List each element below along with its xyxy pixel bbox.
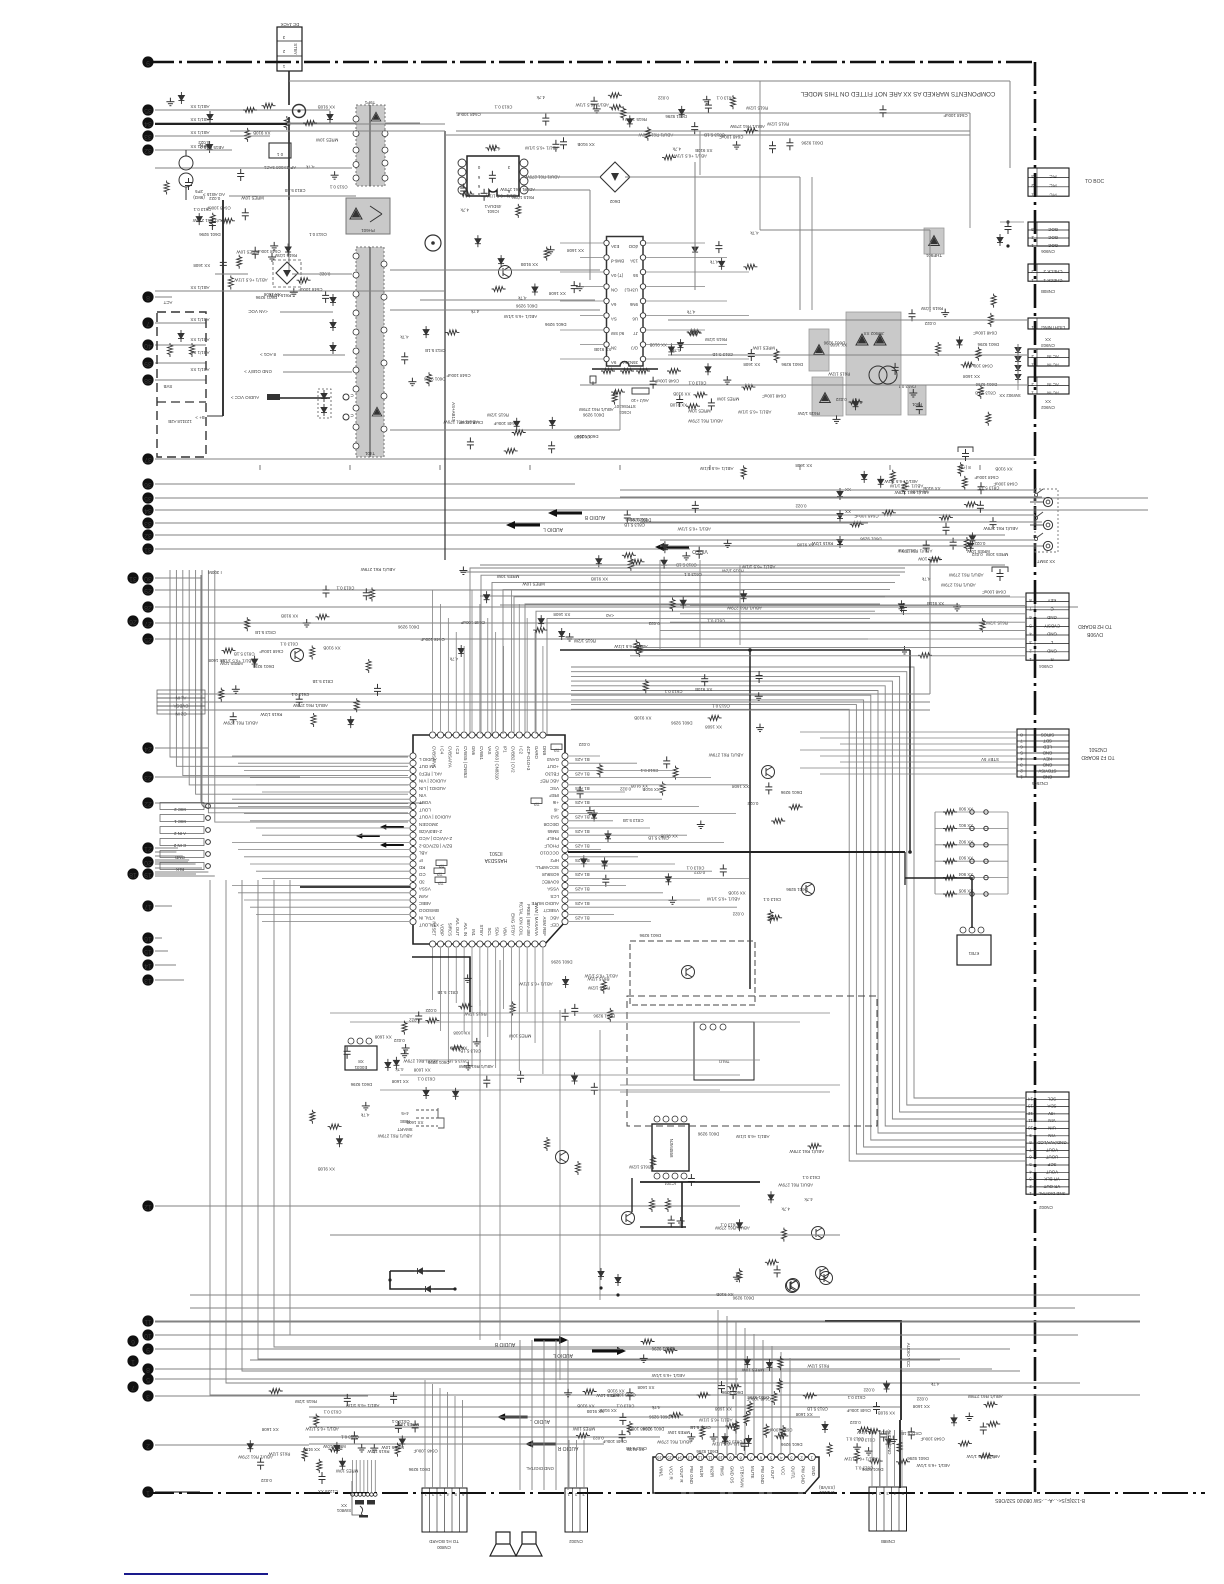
connector CN88B bbox=[869, 1487, 907, 1531]
svg-text:TP: TP bbox=[439, 863, 445, 868]
connector CN904 to H2 board bbox=[1026, 593, 1069, 660]
svg-text:B1 A2S: B1 A2S bbox=[575, 815, 590, 820]
svg-text:XX: XX bbox=[845, 487, 851, 492]
bottom border frame bbox=[148, 1492, 1205, 1494]
connector CN906 bbox=[1028, 222, 1069, 246]
connector CN902 bbox=[1028, 377, 1069, 394]
transistor Q201 bbox=[786, 1280, 799, 1293]
svg-text:39: 39 bbox=[144, 360, 152, 367]
svg-text:4.7k: 4.7k bbox=[460, 208, 469, 213]
svg-text:AP-2X008 9AC1: AP-2X008 9AC1 bbox=[263, 165, 296, 170]
svg-text:0 1: 0 1 bbox=[276, 152, 283, 157]
svg-text:12: 12 bbox=[144, 1203, 152, 1210]
svg-text:AS+AB1S: AS+AB1S bbox=[451, 402, 456, 422]
svg-text:CVBSA/YA: CVBSA/YA bbox=[447, 746, 452, 768]
svg-text:C613 0.1: C613 0.1 bbox=[308, 232, 326, 237]
svg-text:R615 1/2W: R615 1/2W bbox=[260, 712, 283, 717]
svg-text:C IN 2: C IN 2 bbox=[173, 843, 186, 848]
svg-text:XTAL IN: XTAL IN bbox=[419, 915, 435, 920]
svg-text:GND OS: GND OS bbox=[730, 1466, 735, 1483]
svg-text:CVBB2 | CV2: CVBB2 | CV2 bbox=[510, 746, 515, 773]
node 20 bbox=[142, 856, 153, 867]
svg-text:C648 100uF: C648 100uF bbox=[973, 331, 997, 336]
svg-text:VR BLK: VR BLK bbox=[1044, 1177, 1060, 1182]
svg-text:XX 905: XX 905 bbox=[958, 889, 973, 894]
svg-text:C813 5.1B: C813 5.1B bbox=[312, 679, 333, 684]
svg-text:6OV8EC: 6OV8EC bbox=[542, 879, 559, 884]
svg-text:AVL IN: AVL IN bbox=[463, 923, 468, 936]
svg-text:XX 910B: XX 910B bbox=[878, 1411, 895, 1416]
svg-text:D601 9296: D601 9296 bbox=[651, 1347, 673, 1352]
connector pin row 1 bbox=[160, 803, 204, 810]
svg-text:R615 1/2W: R615 1/2W bbox=[294, 1399, 317, 1404]
svg-text:14: 14 bbox=[1028, 1096, 1033, 1101]
wire from node 33 bbox=[155, 522, 868, 524]
svg-text:I C3: I C3 bbox=[455, 746, 460, 755]
svg-text:MRE5 10W: MRE5 10W bbox=[381, 1445, 404, 1450]
svg-text:XX 910B: XX 910B bbox=[716, 1292, 733, 1297]
vertical wires top mid bbox=[699, 131, 701, 175]
svg-text:XX 910B: XX 910B bbox=[695, 148, 712, 153]
node 26 bbox=[127, 615, 138, 626]
svg-text:DV90B: DV90B bbox=[1086, 631, 1103, 637]
svg-text:0.022: 0.022 bbox=[849, 1420, 861, 1425]
svg-text:B1 A2S: B1 A2S bbox=[575, 757, 590, 762]
svg-text:C: C bbox=[1050, 606, 1053, 611]
cluster below IC bbox=[510, 1002, 515, 1016]
svg-text:R615 1/2W: R615 1/2W bbox=[745, 105, 768, 110]
cluster top middle caps bbox=[627, 115, 633, 127]
svg-text:33: 33 bbox=[144, 133, 152, 140]
svg-text:C648 100uF: C648 100uF bbox=[256, 249, 280, 254]
svg-text:CN002: CN002 bbox=[1039, 1205, 1053, 1210]
connector CN302 woofer bbox=[565, 1488, 588, 1532]
svg-text:D601 9296: D601 9296 bbox=[423, 376, 445, 381]
svg-text:6: 6 bbox=[131, 1338, 135, 1345]
svg-text:SM65: SM65 bbox=[547, 829, 559, 834]
svg-text:STBY 5V: STBY 5V bbox=[981, 757, 999, 762]
node 8 bbox=[142, 1363, 153, 1374]
svg-text:C613 0.1: C613 0.1 bbox=[716, 95, 734, 100]
connector pin row 4 bbox=[160, 839, 204, 846]
node 6 bbox=[127, 1335, 138, 1346]
svg-text:BOC: BOC bbox=[1048, 235, 1058, 240]
node 38 bbox=[142, 374, 153, 385]
svg-text:3: 3 bbox=[146, 1393, 150, 1400]
svg-text:+I6: +I6 bbox=[552, 800, 559, 805]
svg-text:Z-4B3/V/ZB: Z-4B3/V/ZB bbox=[419, 829, 442, 834]
svg-text:10: 10 bbox=[717, 1456, 722, 1461]
wire from node 5 bbox=[155, 1378, 738, 1380]
QFP top pin verticals bbox=[432, 590, 434, 731]
top rail second bbox=[230, 130, 445, 132]
svg-text:D601 9296: D601 9296 bbox=[823, 341, 845, 346]
connector CN903 bbox=[1028, 318, 1069, 329]
svg-text:XX 1608: XX 1608 bbox=[795, 463, 812, 468]
svg-text:ABU/1 R61 279W: ABU/1 R61 279W bbox=[948, 572, 984, 577]
svg-text:D601 9296: D601 9296 bbox=[697, 1132, 719, 1137]
svg-text:C613 0.1: C613 0.1 bbox=[763, 897, 781, 902]
connector CN80B bbox=[1028, 264, 1069, 281]
svg-text:ABU/1 R61 279W: ABU/1 R61 279W bbox=[729, 124, 765, 129]
svg-text:23: 23 bbox=[144, 774, 152, 781]
connector CN901 bbox=[1028, 349, 1069, 366]
svg-text:35N35A: 35N35A bbox=[622, 360, 638, 365]
top rails detail bbox=[232, 130, 445, 132]
svg-text:ACT: ACT bbox=[163, 300, 172, 305]
wire from node 13 bbox=[155, 979, 184, 981]
svg-text:XX 1608: XX 1608 bbox=[391, 1079, 408, 1084]
svg-text:VOUT: VOUT bbox=[419, 800, 432, 805]
svg-text:D601 9296: D601 9296 bbox=[801, 141, 823, 146]
TP test point boxes bbox=[436, 860, 447, 866]
svg-text:CN80B: CN80B bbox=[1041, 289, 1055, 294]
wire from node 30 bbox=[155, 577, 201, 579]
transistor Q601 bbox=[556, 1151, 569, 1164]
svg-text:AB1/1 +6.5 1/1W: AB1/1 +6.5 1/1W bbox=[884, 479, 918, 484]
svg-text:SA3: SA3 bbox=[550, 815, 559, 820]
node 35 bbox=[142, 492, 153, 503]
svg-text:IC601: IC601 bbox=[487, 209, 499, 214]
svg-text:J7: J7 bbox=[633, 331, 638, 336]
svg-text:C1225 XX: C1225 XX bbox=[318, 1489, 338, 1494]
svg-text:B1 A2S: B1 A2S bbox=[575, 872, 590, 877]
svg-text:EMG STBY: EMG STBY bbox=[510, 913, 515, 936]
svg-text:D601 9296: D601 9296 bbox=[732, 1296, 754, 1301]
svg-text:XX 910B: XX 910B bbox=[695, 687, 712, 692]
svg-text:AC IN: AC IN bbox=[1047, 363, 1059, 368]
node 11 bbox=[142, 1315, 153, 1326]
svg-text:SMART: SMART bbox=[397, 1127, 413, 1132]
svg-text:GND: GND bbox=[1047, 615, 1057, 620]
svg-text:OUT/L: OUT/L bbox=[790, 1466, 795, 1479]
svg-text:AUDIO L: AUDIO L bbox=[418, 757, 436, 762]
svg-text:XX 910B: XX 910B bbox=[303, 1447, 320, 1452]
IC U2 DIP8 top (IC601) bbox=[467, 156, 519, 196]
svg-text:31: 31 bbox=[144, 546, 152, 553]
svg-text:AB1/1 XX: AB1/1 XX bbox=[190, 104, 209, 109]
svg-text:14: 14 bbox=[677, 1456, 682, 1461]
cluster under-IC rows bbox=[402, 1021, 407, 1035]
svg-text:ABU/1 R61 279W: ABU/1 R61 279W bbox=[443, 419, 479, 424]
svg-text:C813 5.1B: C813 5.1B bbox=[285, 188, 306, 193]
svg-text:C813 5.1B: C813 5.1B bbox=[704, 133, 725, 138]
second lamp circle bbox=[425, 235, 441, 251]
rails y596 y605 bbox=[480, 595, 1010, 597]
option jumper row 6 bbox=[935, 893, 1008, 895]
svg-text:4.7k: 4.7k bbox=[305, 164, 314, 169]
bold wire HP2 rail bbox=[568, 851, 905, 853]
node 39 bbox=[142, 357, 153, 368]
svg-text:AB1/1 XX: AB1/1 XX bbox=[190, 130, 209, 135]
svg-text:VSBC/7: VSBC/7 bbox=[543, 908, 559, 913]
svg-text:AB1/1 XX: AB1/1 XX bbox=[190, 144, 209, 149]
svg-text:16: 16 bbox=[657, 1456, 662, 1461]
svg-text:XX 1608: XX 1608 bbox=[743, 362, 760, 367]
svg-text:AC IN: AC IN bbox=[1047, 354, 1059, 359]
bus nest above IC bbox=[470, 568, 905, 734]
cluster amp right bbox=[980, 1423, 987, 1435]
node 12 bbox=[142, 1200, 153, 1211]
svg-text:AB1/1 +6.5 1/1W: AB1/1 +6.5 1/1W bbox=[735, 1134, 769, 1139]
svg-text:BM6-d: BM6-d bbox=[610, 259, 623, 264]
svg-text:D601 9296: D601 9296 bbox=[671, 721, 693, 726]
node 13 bbox=[142, 974, 153, 985]
svg-text:MRE5 10W: MRE5 10W bbox=[716, 397, 739, 402]
svg-text:35: 35 bbox=[144, 495, 152, 502]
left vertical bundle to bottom bbox=[155, 847, 170, 849]
svg-text:XX 904: XX 904 bbox=[958, 872, 973, 877]
svg-text:IN2/R: IN2/R bbox=[709, 1466, 714, 1477]
svg-text:PIC: PIC bbox=[1049, 174, 1056, 179]
svg-text:123118 A2B: 123118 A2B bbox=[168, 419, 192, 424]
svg-text:D601 9296: D601 9296 bbox=[781, 362, 803, 367]
svg-text:D601 9296: D601 9296 bbox=[907, 1456, 929, 1461]
cap bracket symbols bbox=[958, 447, 973, 452]
svg-text:26: 26 bbox=[129, 618, 137, 625]
svg-text:R615 1/2W: R615 1/2W bbox=[797, 411, 820, 416]
svg-text:19: 19 bbox=[144, 871, 152, 878]
svg-text:0.022: 0.022 bbox=[924, 321, 936, 326]
svg-text:RCTAL ION COIL: RCTAL ION COIL bbox=[518, 902, 523, 937]
svg-text:TP: TP bbox=[534, 801, 540, 806]
svg-text:B1 A2S: B1 A2S bbox=[575, 786, 590, 791]
svg-text:AB1/1 +6.5 1/1W: AB1/1 +6.5 1/1W bbox=[673, 154, 707, 159]
svg-text:BOC: BOC bbox=[1048, 227, 1058, 232]
node 15 bbox=[142, 945, 153, 956]
svg-text:PHILF: PHILF bbox=[546, 836, 559, 841]
node 23 bbox=[142, 771, 153, 782]
svg-text:R615 1/2W: R615 1/2W bbox=[587, 976, 610, 981]
svg-text:MUTE: MUTE bbox=[750, 1466, 755, 1479]
svg-text:DNB: DNB bbox=[542, 746, 547, 755]
svg-text:SW902 XX: SW902 XX bbox=[999, 393, 1021, 398]
bus nest right of IC bbox=[571, 667, 1026, 1098]
svg-text:AVL OUT: AVL OUT bbox=[455, 918, 460, 937]
wire from node 32 bbox=[155, 534, 1005, 536]
svg-text:1: 1 bbox=[131, 1358, 135, 1365]
svg-text:C613 0.1: C613 0.1 bbox=[616, 1403, 634, 1408]
svg-text:CO: CO bbox=[418, 872, 425, 877]
svg-text:D601 9296: D601 9296 bbox=[649, 1415, 671, 1420]
svg-text:AC IN: AC IN bbox=[1047, 391, 1059, 396]
wire from DC jack bbox=[288, 71, 290, 105]
svg-text:22: 22 bbox=[144, 800, 152, 807]
svg-text:C613 0.1: C613 0.1 bbox=[417, 1077, 435, 1082]
node 32 bbox=[142, 144, 153, 155]
svg-text:B1 A2S: B1 A2S bbox=[575, 843, 590, 848]
svg-text:CN902: CN902 bbox=[1041, 405, 1055, 410]
svg-text:XX 910B: XX 910B bbox=[673, 392, 690, 397]
svg-text:4+5: 4+5 bbox=[401, 1111, 409, 1116]
wire from node 33 bbox=[155, 135, 260, 137]
cluster right of QFP bbox=[660, 782, 665, 796]
svg-text:ABL: ABL bbox=[418, 851, 427, 856]
cluster amp input bbox=[627, 1421, 632, 1435]
svg-text:C648 100uF: C648 100uF bbox=[982, 589, 1006, 594]
transistor Q602 bbox=[622, 1212, 635, 1225]
dashed standby box left bbox=[157, 312, 206, 457]
svg-text:CVBS5 | CN853: CVBS5 | CN853 bbox=[463, 746, 468, 778]
svg-text:C648 100uF: C648 100uF bbox=[298, 287, 322, 292]
svg-text:C648 100uF: C648 100uF bbox=[493, 421, 517, 426]
svg-text:2P5: 2P5 bbox=[195, 189, 203, 194]
wire from node 34 bbox=[155, 509, 1148, 511]
dashed box below IC bbox=[630, 941, 755, 1005]
svg-text:YIN: YIN bbox=[1048, 1133, 1055, 1138]
svg-text:GND: GND bbox=[1047, 632, 1057, 637]
node 10 bbox=[142, 1329, 153, 1340]
svg-text:D601 9296: D601 9296 bbox=[551, 960, 573, 965]
svg-text:C648 100uF: C648 100uF bbox=[655, 379, 679, 384]
svg-text:B+ >: B+ > bbox=[195, 415, 205, 420]
svg-text:11: 11 bbox=[144, 1318, 151, 1325]
svg-text:XX 1608: XX 1608 bbox=[705, 724, 722, 729]
wire from node 2 bbox=[155, 1444, 309, 1446]
cluster left mid bbox=[323, 586, 330, 598]
svg-text:ABU/1 R61 279W: ABU/1 R61 279W bbox=[983, 526, 1019, 531]
cluster right of DIP bbox=[692, 244, 698, 256]
svg-text:C648 100uF: C648 100uF bbox=[602, 1439, 626, 1444]
svg-text:B1 A2S: B1 A2S bbox=[575, 887, 590, 892]
svg-text:AB1/1 +6.5 1/1W: AB1/1 +6.5 1/1W bbox=[345, 1403, 379, 1408]
svg-text:7: 7 bbox=[131, 1384, 135, 1391]
node 24 bbox=[142, 742, 153, 753]
svg-text:0.022: 0.022 bbox=[863, 1388, 875, 1393]
svg-text:AUDIO B: AUDIO B bbox=[494, 1341, 515, 1347]
cluster under opto bbox=[408, 378, 416, 386]
svg-text:D601 9296: D601 9296 bbox=[639, 933, 661, 938]
svg-text:GN6: GN6 bbox=[471, 746, 476, 756]
svg-text:B1 A2S: B1 A2S bbox=[575, 901, 590, 906]
svg-text:GND DIGITAL: GND DIGITAL bbox=[526, 1466, 554, 1471]
connector pin row 5 bbox=[160, 851, 204, 858]
svg-text:AB1/1 XX: AB1/1 XX bbox=[190, 337, 209, 342]
svg-text:AUDIO L: AUDIO L bbox=[530, 1418, 550, 1424]
node 27 bbox=[142, 617, 153, 628]
svg-text:MIC 2: MIC 2 bbox=[174, 807, 186, 812]
svg-text:AB1/1 +6.5 1/1W: AB1/1 +6.5 1/1W bbox=[484, 193, 518, 198]
wire from node 11 bbox=[155, 1320, 1140, 1322]
connector CN905 to BOC bbox=[1028, 168, 1069, 196]
svg-text:XX 910B: XX 910B bbox=[577, 142, 594, 147]
svg-text:GND: GND bbox=[811, 1466, 816, 1476]
svg-text:MRE5 10W: MRE5 10W bbox=[236, 249, 259, 254]
svg-text:XX 1608: XX 1608 bbox=[963, 374, 980, 379]
svg-text:C613 0.1: C613 0.1 bbox=[846, 1437, 864, 1442]
svg-text:XX 25MT: XX 25MT bbox=[1037, 559, 1056, 564]
wire from node 37 bbox=[155, 458, 1035, 460]
audio arrows near IC bbox=[356, 833, 380, 839]
bold vertical x750 bbox=[749, 650, 751, 989]
cluster under top ICs bbox=[489, 171, 496, 183]
svg-text:VOUT: VOUT bbox=[1046, 1169, 1059, 1174]
svg-text:21: 21 bbox=[144, 845, 152, 852]
svg-text:4.7k: 4.7k bbox=[709, 260, 718, 265]
svg-text:<AN VOC: <AN VOC bbox=[248, 309, 267, 314]
svg-text:C813 5.1B: C813 5.1B bbox=[425, 348, 446, 353]
svg-text:C648 100uF: C648 100uF bbox=[920, 1436, 944, 1441]
svg-text:D601 9296: D601 9296 bbox=[199, 232, 221, 237]
wire from node 7 bbox=[155, 322, 206, 324]
svg-text:32: 32 bbox=[144, 147, 152, 154]
svg-text:C: C bbox=[350, 393, 353, 398]
rails left of CN002 bbox=[620, 1084, 840, 1086]
svg-text:AB1/1 +6.5 1/1W: AB1/1 +6.5 1/1W bbox=[651, 1373, 685, 1378]
svg-text:AG AB15 >: AG AB15 > bbox=[203, 192, 225, 197]
wire from node 12 bbox=[155, 1205, 740, 1207]
svg-text:AB1/1 +6.5 1/1W: AB1/1 +6.5 1/1W bbox=[305, 1427, 339, 1432]
svg-text:0.022: 0.022 bbox=[393, 1038, 405, 1043]
svg-text:B1 A2S: B1 A2S bbox=[575, 858, 590, 863]
svg-text:SCCAMPLL: SCCAMPLL bbox=[535, 865, 559, 870]
svg-text:IN1: IN1 bbox=[471, 929, 476, 936]
svg-text:VR OUT: VR OUT bbox=[1043, 1184, 1060, 1189]
svg-text:R615 1/2W: R615 1/2W bbox=[985, 620, 1008, 625]
svg-text:MRE5 10W: MRE5 10W bbox=[572, 1427, 595, 1432]
svg-text:AB1/1 +6.5 1/1W: AB1/1 +6.5 1/1W bbox=[575, 103, 609, 108]
wire from node 34 bbox=[155, 122, 420, 124]
svg-text:+8V: +8V bbox=[1048, 1111, 1056, 1116]
IC603 right stubs bbox=[646, 242, 705, 244]
svg-text:D601 9296: D601 9296 bbox=[408, 1467, 430, 1472]
svg-text:T401: T401 bbox=[364, 451, 375, 456]
DC jack barrel circle bbox=[293, 105, 306, 118]
svg-text:ABU/1 R61 279W: ABU/1 R61 279W bbox=[360, 567, 396, 572]
svg-text:8 AO1 >: 8 AO1 > bbox=[260, 352, 276, 357]
svg-text:C813 5.1B: C813 5.1B bbox=[975, 391, 996, 396]
svg-text:GND: GND bbox=[175, 855, 185, 860]
svg-text:C648 100uF: C648 100uF bbox=[846, 1408, 870, 1413]
node 29 bbox=[142, 584, 153, 595]
connector DC jack (top) bbox=[277, 27, 302, 71]
svg-text:38: 38 bbox=[144, 377, 152, 384]
svg-text:AB1/1 +6.5 1/1W: AB1/1 +6.5 1/1W bbox=[503, 314, 537, 319]
svg-text:XX 902: XX 902 bbox=[958, 839, 973, 844]
svg-text:XX 910B: XX 910B bbox=[594, 347, 611, 352]
svg-text:PHOLF: PHOLF bbox=[544, 843, 559, 848]
svg-text:24: 24 bbox=[144, 745, 152, 752]
svg-text:4.7k: 4.7k bbox=[672, 147, 681, 152]
svg-text:STRS6307: STRS6307 bbox=[614, 404, 636, 409]
svg-text:D601 9296: D601 9296 bbox=[397, 624, 419, 629]
svg-text:COMPONENTS MARKED AS XX ARE NO: COMPONENTS MARKED AS XX ARE NOT FITTED O… bbox=[800, 90, 995, 97]
cluster below nest bbox=[737, 1219, 743, 1231]
svg-text:R615 1/2W: R615 1/2W bbox=[573, 639, 596, 644]
svg-text:THP901: THP901 bbox=[925, 253, 942, 258]
svg-text:PH601: PH601 bbox=[361, 228, 375, 233]
node 9 bbox=[142, 56, 153, 67]
svg-text:XX 1608: XX 1608 bbox=[453, 1031, 470, 1036]
svg-text:AUDIO VCC >: AUDIO VCC > bbox=[230, 395, 259, 400]
svg-text:B1 A2S: B1 A2S bbox=[575, 829, 590, 834]
svg-text:OECO8: OECO8 bbox=[543, 822, 559, 827]
svg-text:<A0: <A0 bbox=[605, 613, 613, 618]
svg-text:C648 100uF: C648 100uF bbox=[968, 364, 992, 369]
small 3pin device CN601 bbox=[694, 1022, 754, 1080]
svg-text:SCP: SCP bbox=[1047, 1162, 1056, 1167]
svg-text:LIGHTNING: LIGHTNING bbox=[1040, 325, 1064, 330]
B+ wire bold bbox=[222, 200, 224, 416]
svg-text:STBY/AVN: STBY/AVN bbox=[740, 1466, 745, 1487]
resistor row below IC603 bbox=[592, 368, 658, 370]
bold wire network near IC201 bbox=[640, 1181, 760, 1183]
svg-text:AB1/1 +6.5 1/1W: AB1/1 +6.5 1/1W bbox=[916, 1463, 950, 1468]
wire from node 29 bbox=[155, 589, 745, 591]
svg-text:C613 0.1: C613 0.1 bbox=[193, 207, 211, 212]
svg-text:MRE5 10W: MRE5 10W bbox=[322, 1444, 345, 1449]
svg-text:11: 11 bbox=[1028, 1118, 1033, 1123]
